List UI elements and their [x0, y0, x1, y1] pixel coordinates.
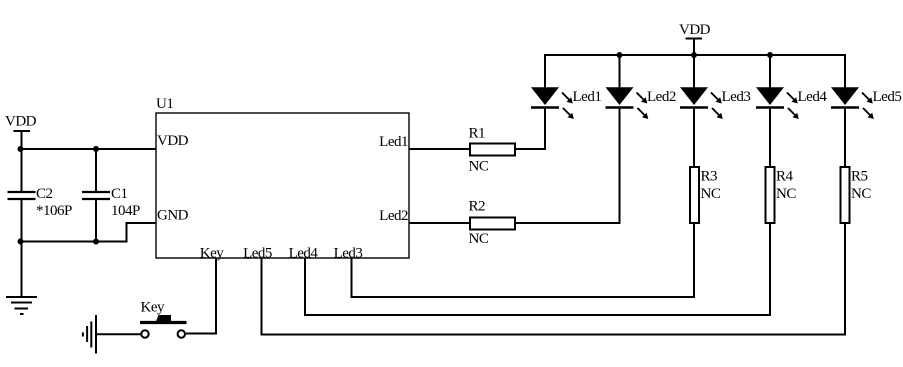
svg-text:NC: NC — [851, 186, 871, 202]
wire bottom junction C2-C1 to GND step — [21, 223, 157, 242]
switch Key (push button) — [140, 315, 187, 338]
svg-text:R1: R1 — [469, 126, 486, 142]
wire switch to ground — [97, 333, 141, 335]
LED Led5 — [831, 87, 874, 119]
wire U1 Key pin down to switch — [186, 258, 216, 334]
LED Led2 — [606, 87, 649, 119]
wire rail to LED1 anode — [544, 54, 546, 88]
wire VDD rail left to U1 VDD pin — [21, 148, 157, 150]
wire rail to LED4 anode — [769, 55, 771, 88]
resistor R4 — [766, 167, 775, 223]
svg-text:Led5: Led5 — [873, 89, 902, 105]
wire VDD top rail — [545, 54, 845, 56]
ground (earth, sideways, left of switch) — [83, 315, 96, 354]
svg-text:*106P: *106P — [36, 203, 72, 219]
wire rail to LED5 anode — [844, 54, 846, 88]
svg-text:Led2: Led2 — [379, 208, 408, 224]
svg-text:R4: R4 — [776, 169, 794, 185]
svg-text:VDD: VDD — [679, 22, 711, 38]
svg-text:Led3: Led3 — [722, 89, 751, 105]
svg-text:GND: GND — [157, 208, 189, 224]
node junction C1 bottom — [93, 239, 99, 245]
wire C1 bottom lead — [95, 199, 97, 242]
ground (earth, below C2) — [6, 297, 37, 314]
wire R1 to LED1 — [515, 108, 545, 149]
svg-text:R3: R3 — [701, 169, 718, 185]
svg-text:VDD: VDD — [157, 133, 189, 149]
svg-text:NC: NC — [776, 186, 796, 202]
svg-text:Led3: Led3 — [334, 246, 363, 262]
wire rail to LED2 anode — [619, 55, 621, 88]
wire LED5 cathode to R5 — [844, 108, 846, 168]
svg-text:Led2: Led2 — [647, 89, 676, 105]
capacitor C2 — [8, 192, 36, 199]
power symbol VDD (top right) — [679, 22, 711, 55]
node junction rail at LED4 — [767, 52, 773, 58]
resistor R3 — [690, 167, 699, 223]
svg-text:Key: Key — [141, 300, 165, 316]
resistor R5 — [841, 167, 850, 223]
wire U1 Led1 pin to R1 — [409, 148, 470, 150]
LED Led4 — [756, 87, 799, 119]
node junction left VDD / C2 — [18, 146, 24, 152]
wire R5 bottom to U1 Led5 pin — [262, 223, 846, 335]
LED Led1 — [531, 87, 574, 119]
wire R4 bottom to U1 Led4 pin — [305, 223, 770, 315]
node junction rail at LED2 — [617, 52, 623, 58]
svg-text:Led5: Led5 — [243, 246, 272, 262]
power symbol VDD (left) — [5, 114, 37, 150]
svg-text:Led4: Led4 — [289, 246, 319, 262]
resistor R2 — [470, 218, 515, 230]
op-amp U1 box — [156, 113, 409, 258]
svg-text:C1: C1 — [111, 186, 128, 202]
svg-text:VDD: VDD — [5, 114, 37, 130]
LED Led3 — [680, 87, 723, 119]
svg-text:U1: U1 — [156, 96, 173, 112]
wire R3 bottom to U1 Led3 pin — [352, 223, 695, 297]
wire C2 bottom lead to ground — [21, 199, 23, 297]
svg-text:NC: NC — [469, 231, 489, 247]
svg-text:104P: 104P — [111, 203, 140, 219]
node junction C2 bottom — [18, 239, 24, 245]
wire rail to LED3 anode — [693, 55, 695, 88]
capacitor C1 — [82, 192, 110, 199]
svg-text:NC: NC — [701, 186, 721, 202]
wire U1 Led2 pin to R2 — [409, 222, 470, 224]
svg-text:Key: Key — [200, 246, 224, 262]
svg-text:R2: R2 — [469, 199, 486, 215]
wire R2 to LED2 — [515, 108, 620, 223]
svg-text:C2: C2 — [36, 186, 53, 202]
resistor R1 — [470, 144, 515, 156]
wire C2 top lead — [21, 149, 23, 192]
node junction C1 top — [93, 146, 99, 152]
node junction rail at VDD stem — [691, 52, 697, 58]
svg-text:Led1: Led1 — [379, 134, 408, 150]
wire C1 top lead — [95, 149, 97, 192]
wire LED4 cathode to R4 — [769, 108, 771, 168]
svg-text:R5: R5 — [851, 169, 868, 185]
svg-text:NC: NC — [469, 159, 489, 175]
svg-text:Led1: Led1 — [573, 89, 602, 105]
wire LED3 cathode to R3 — [693, 108, 695, 168]
svg-text:Led4: Led4 — [798, 89, 828, 105]
